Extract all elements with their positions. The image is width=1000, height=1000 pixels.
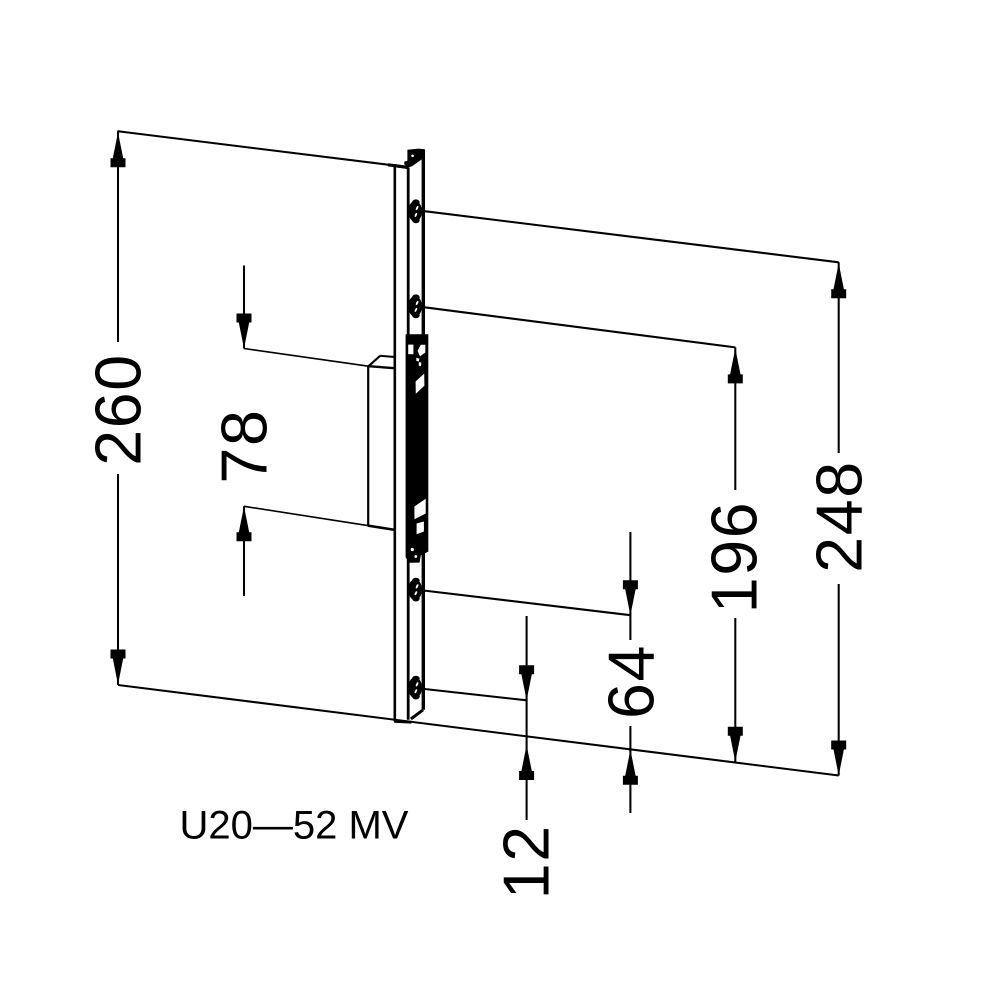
dimension line 12 [526,616,528,820]
svg-text:64: 64 [596,644,668,719]
svg-text:12: 12 [491,824,563,899]
dimension line 78 (upper segment) [243,266,245,349]
arrow: 78 top (down) [237,314,252,349]
extension line: 260 top (to plate top-left corner) [118,131,396,165]
latch bar white notch 3 [416,374,425,394]
extension line: hole 4 to 12 [425,689,527,700]
faceplate: right edge line [422,151,425,710]
arrow: 12 top (down) [519,665,534,700]
extension line: 78 top (to lock case top corner) [244,349,368,367]
latch bar white notch 4 [414,499,425,520]
screw hole 3 [408,578,422,602]
arrow: 248 bottom (down) [831,741,846,776]
faceplate top cap (filled) [404,149,425,168]
lock case: top back edge [380,356,395,357]
lock case: left edge [367,366,369,526]
lock case: top front edge [368,366,394,368]
extension line: hole 3 to 64 [425,591,631,616]
dimension line 260 (upper segment) [117,131,119,342]
faceplate: middle edge line lower [407,556,410,720]
extension line: hole 1 to 248 [425,211,839,262]
arrow: 196 bottom (down) [728,727,743,762]
dimension line 64 (upper segment) [629,532,631,640]
latch bar white notch 1 [408,345,413,355]
svg-text:78: 78 [209,409,281,484]
latch bar white speck a [416,358,419,362]
dimension line 78 (lower segment) [243,506,245,596]
dimension line 196 (lower segment) [734,618,736,762]
arrow: 248 top (up) [831,263,846,298]
arrow: 260 top (up) [111,132,126,167]
dimension line 248 (lower segment) [838,584,840,776]
faceplate: left edge line [393,166,396,722]
screw hole 4 [408,676,422,700]
latch bar white speck c [411,548,414,551]
latch bar white notch 5 [417,522,424,535]
dimension line 260 (lower segment) [117,474,119,685]
latch bar white speck d [414,555,417,558]
latch bar white speck b [419,362,422,366]
faceplate: bottom-right chamfer [411,710,423,719]
latch bar white notch 2 [418,345,426,357]
arrow: 64 bottom (up) [623,750,638,785]
svg-text:U20—52 MV: U20—52 MV [180,804,409,848]
dimension line 64 (lower segment) [629,726,631,813]
extension line: 78 bottom (to lock case bottom corner) [244,506,368,525]
arrow: 260 bottom (down) [111,650,126,685]
arrow: 78 bottom (up) [237,506,252,541]
lock case: bottom edge [368,526,395,530]
faceplate: middle edge line upper [407,168,410,337]
top cap highlight dot [411,155,414,158]
arrow: 64 top (down) [623,580,638,615]
svg-text:248: 248 [804,460,876,572]
svg-text:196: 196 [699,501,771,613]
extension line: hole 2 to 196 [425,307,736,347]
screw hole 1 [408,199,422,223]
latch cutout bar (filled) [406,334,429,563]
dimension line 196 (upper segment) [734,347,736,490]
lock case: top-left diagonal [368,356,380,367]
arrow: 196 top (up) [728,348,743,383]
dimension line 248 (upper segment) [838,262,840,453]
svg-text:260: 260 [83,353,155,465]
baseline extension (bottom, from 260 to 248) [118,685,839,776]
faceplate: bottom edge [394,720,411,724]
screw hole 2 [408,294,422,318]
faceplate: top edge of side face [394,166,408,168]
arrow: 12 bottom (up) [519,745,534,780]
